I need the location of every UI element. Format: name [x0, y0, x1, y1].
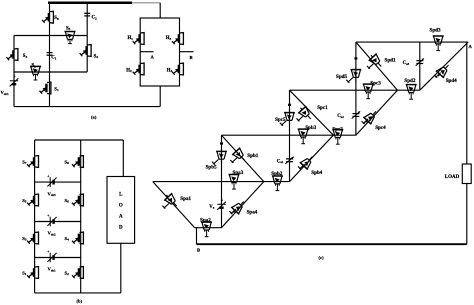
svg-text:S2: S2 — [65, 270, 70, 276]
svg-text:Spd3: Spd3 — [430, 28, 441, 34]
svg-text:S2: S2 — [32, 64, 37, 69]
svg-text:H3: H3 — [166, 36, 172, 41]
svg-text:S1: S1 — [54, 87, 59, 92]
svg-text:Spc5: Spc5 — [275, 117, 286, 123]
svg-text:B: B — [190, 55, 193, 60]
svg-text:Spa1: Spa1 — [180, 196, 191, 202]
svg-text:+: + — [221, 199, 223, 203]
svg-text:S6: S6 — [54, 16, 59, 21]
svg-text:(c): (c) — [319, 255, 325, 260]
svg-text:C2: C2 — [92, 16, 97, 21]
svg-text:S4: S4 — [65, 236, 70, 242]
svg-text:Spd4: Spd4 — [446, 78, 457, 84]
svg-text:Ca2: Ca2 — [337, 114, 344, 119]
svg-text:Spb5: Spb5 — [206, 165, 217, 171]
svg-text:B: B — [197, 248, 200, 253]
svg-text:H1: H1 — [128, 36, 134, 41]
svg-text:S8: S8 — [65, 159, 70, 165]
svg-text:S3: S3 — [23, 54, 28, 59]
svg-text:Vdc1: Vdc1 — [1, 90, 10, 96]
svg-text:S5: S5 — [22, 198, 27, 204]
svg-text:Spa2: Spa2 — [200, 217, 211, 223]
svg-text:Spd1: Spd1 — [385, 58, 396, 64]
svg-text:H2: H2 — [126, 68, 132, 73]
svg-text:Spb1: Spb1 — [247, 153, 258, 159]
svg-text:Ca3: Ca3 — [403, 61, 410, 66]
svg-text:D: D — [119, 226, 123, 231]
svg-text:C1: C1 — [51, 56, 56, 61]
svg-text:S1: S1 — [22, 270, 27, 276]
svg-text:Spb4: Spb4 — [311, 170, 322, 176]
svg-text:Spa4: Spa4 — [247, 210, 258, 216]
svg-text:Ca1: Ca1 — [277, 159, 284, 164]
svg-text:Va: Va — [209, 205, 214, 210]
svg-text:H4: H4 — [167, 68, 173, 73]
svg-text:Spc1: Spc1 — [317, 105, 328, 111]
svg-text:LOAD: LOAD — [445, 175, 460, 180]
svg-text:(a): (a) — [91, 115, 97, 120]
svg-text:A: A — [119, 215, 123, 220]
svg-text:Spc3: Spc3 — [370, 80, 381, 86]
svg-text:+: + — [14, 75, 16, 79]
svg-text:S4: S4 — [94, 54, 99, 59]
svg-text:S7: S7 — [22, 159, 27, 165]
svg-text:Spa3: Spa3 — [233, 170, 244, 176]
svg-text:Spc2: Spc2 — [332, 126, 343, 132]
svg-text:(b): (b) — [77, 299, 83, 304]
svg-text:S3: S3 — [22, 236, 27, 242]
svg-text:S6: S6 — [65, 198, 70, 204]
svg-text:Vdc3: Vdc3 — [48, 191, 57, 197]
svg-text:Spc4: Spc4 — [375, 125, 386, 131]
svg-text:Spd5: Spd5 — [336, 74, 347, 80]
svg-text:Spb3: Spb3 — [305, 125, 316, 131]
svg-text:Vdc1: Vdc1 — [48, 267, 57, 273]
svg-text:+: + — [47, 214, 49, 218]
svg-text:Spb2: Spb2 — [271, 171, 282, 177]
svg-text:+: + — [47, 175, 49, 179]
svg-text:Vdc2: Vdc2 — [48, 231, 57, 237]
svg-text:+: + — [47, 250, 49, 254]
svg-text:Spd2: Spd2 — [404, 78, 415, 84]
svg-text:S5: S5 — [66, 26, 71, 31]
svg-text:O: O — [119, 204, 123, 209]
